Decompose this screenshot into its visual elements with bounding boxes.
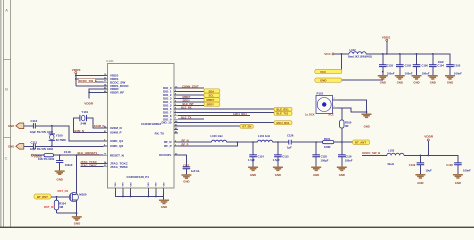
port BT_RST yellow — [34, 194, 51, 199]
svg-text:GND: GND — [339, 173, 345, 177]
resistor R100 vertical — [340, 108, 352, 142]
wire VDDS vertical — [75, 74, 77, 86]
svg-text:C109: C109 — [409, 163, 416, 167]
svg-text:BLE_INT: BLE_INT — [183, 102, 195, 106]
svg-text:0R: 0R — [345, 124, 348, 128]
port MRDY yellow — [204, 98, 220, 103]
wire mosfet drain vertical — [76, 155, 78, 194]
svg-text:GND: GND — [455, 181, 461, 185]
svg-text:12pF 5% 50V 0402: 12pF 5% 50V 0402 — [30, 130, 54, 134]
junction VDDR — [88, 91, 90, 93]
ground mosfet — [72, 217, 82, 225]
ground chip bottom — [159, 200, 169, 209]
inductor L103 — [387, 148, 404, 165]
ground P101 — [362, 114, 372, 128]
bottom edge dark strip — [0, 227, 474, 228]
junction C109 — [420, 155, 422, 157]
junction VDDR — [427, 155, 429, 157]
ground C102 — [395, 76, 405, 85]
inductor L102 — [348, 48, 372, 58]
resistor R103 — [38, 154, 55, 161]
svg-text:C111: C111 — [31, 141, 38, 145]
svg-text:BT_RST: BT_RST — [37, 195, 48, 199]
port BLE_RX1 yellow — [274, 107, 292, 111]
port BT_ANT yellow — [353, 140, 370, 145]
svg-text:GND: GND — [430, 80, 436, 84]
svg-text:LED1_BK4: LED1_BK4 — [233, 112, 247, 116]
junction crystal bottom — [51, 145, 53, 147]
svg-text:VDDR_RF: VDDR_RF — [110, 90, 124, 94]
ground C103 — [378, 76, 388, 85]
svg-text:24M: 24M — [81, 121, 87, 125]
svg-text:C118: C118 — [64, 150, 71, 154]
svg-text:VSS: VSS — [163, 182, 165, 187]
port GND upper — [8, 123, 24, 129]
svg-text:GND: GND — [56, 178, 62, 182]
junction mosfet drain tap — [76, 154, 78, 156]
ground C115 — [273, 167, 283, 177]
wire DIO_4 — [178, 98, 204, 102]
ground C118 — [55, 171, 65, 182]
svg-text:X24M_P: X24M_P — [110, 131, 122, 135]
svg-text:GND: GND — [417, 181, 423, 185]
capacitor C125 — [312, 142, 328, 167]
power port VDDS top — [382, 35, 391, 55]
wire DIO_8 — [178, 112, 250, 116]
svg-text:VCC: VCC — [320, 70, 327, 74]
svg-text:GND: GND — [183, 179, 189, 183]
svg-text:VSS: VSS — [130, 182, 132, 187]
capacitor C104 — [429, 53, 444, 75]
port BLE_TX1 yellow — [274, 112, 292, 116]
wire down to gnd — [76, 213, 78, 216]
wire DIO_3 — [178, 95, 204, 99]
svg-text:GND: GND — [447, 80, 453, 84]
svg-text:10K 5% 0402: 10K 5% 0402 — [38, 157, 55, 161]
svg-text:GND: GND — [250, 173, 256, 177]
svg-text:GND: GND — [413, 80, 419, 84]
wire reset net — [33, 154, 103, 156]
wire port2 to C111 — [24, 145, 33, 147]
svg-text:SRDY: SRDY — [207, 103, 215, 107]
power port VCC — [324, 52, 334, 56]
svg-text:GND: GND — [8, 145, 14, 149]
port GND yellow — [315, 78, 342, 83]
svg-text:GND: GND — [275, 173, 281, 177]
ground C114 — [248, 167, 258, 177]
svg-text:VSS: VSS — [148, 182, 150, 187]
wire port1 to C113 — [24, 125, 33, 127]
svg-text:U100: U100 — [106, 59, 114, 63]
wire VDDR_RF pin6 — [89, 91, 103, 93]
net label DCDC_SW_A — [78, 79, 97, 83]
svg-text:1.5pF: 1.5pF — [248, 158, 255, 162]
svg-text:1.5pF: 1.5pF — [273, 158, 280, 162]
junction VDDS pin2 — [75, 78, 77, 80]
wire DIO_7 — [178, 111, 274, 113]
svg-text:GND: GND — [320, 79, 326, 83]
svg-text:Y100: Y100 — [56, 134, 63, 138]
svg-text:100pF: 100pF — [321, 159, 329, 163]
ground C105 — [445, 76, 455, 85]
svg-text:100nF: 100nF — [387, 71, 395, 75]
wire DIO_6 — [178, 105, 274, 109]
wire C111 to X32K_Q2 pin — [35, 145, 103, 147]
wire GND box to gnd — [342, 79, 383, 81]
svg-text:MRDY: MRDY — [183, 95, 191, 99]
wire DIO_2 — [178, 94, 204, 96]
capacitor C100 — [413, 53, 430, 75]
svg-text:C103: C103 — [387, 63, 394, 67]
wire gate — [51, 196, 70, 198]
capacitor C113 — [30, 119, 54, 134]
wire X24M_N upper — [87, 118, 104, 128]
wire RF_P — [178, 142, 237, 146]
svg-text:VDDR: VDDR — [84, 102, 94, 106]
capacitor C109 — [409, 155, 432, 174]
svg-text:RX_TX: RX_TX — [155, 131, 164, 135]
junction C114 tap — [252, 141, 254, 143]
ground C108 — [453, 175, 463, 185]
port BT_EN yellow — [240, 125, 253, 129]
capacitor C117 DCOUPL — [178, 155, 200, 175]
svg-text:SCL: SCL — [209, 94, 215, 98]
power port VDDR right — [424, 135, 434, 156]
wire down to VCC box — [341, 54, 343, 70]
ground C109 — [415, 175, 425, 185]
svg-text:DCOUPL: DCOUPL — [159, 153, 171, 157]
wire VDDS pin2 — [76, 78, 104, 80]
svg-text:C126: C126 — [287, 133, 294, 137]
IC U100 right pin names — [155, 86, 172, 157]
svg-text:M100: M100 — [79, 192, 87, 196]
junction shield — [366, 111, 368, 113]
svg-text:A: A — [5, 8, 8, 13]
net label BLE_nRESET1 — [78, 151, 100, 155]
svg-text:GND: GND — [74, 221, 80, 225]
svg-text:RF_N: RF_N — [182, 138, 189, 142]
svg-text:10uH: 10uH — [387, 162, 394, 166]
IC U100 right pin numbers — [175, 87, 178, 156]
crystal Y100 — [49, 126, 66, 147]
svg-text:1uF HL: 1uF HL — [191, 169, 200, 173]
svg-text:RESET_N: RESET_N — [110, 153, 124, 157]
capacitor C103 — [379, 53, 395, 75]
svg-text:C116: C116 — [345, 155, 352, 159]
net label JTAG_TMSC — [80, 163, 103, 167]
svg-text:SDA: SDA — [209, 89, 215, 93]
wire DCDC out — [404, 155, 458, 162]
junction C125 tap — [315, 141, 317, 143]
wire VDDR pin5 — [89, 89, 103, 99]
svg-text:RST_R4: RST_R4 — [44, 205, 55, 209]
svg-text:C108: C108 — [446, 163, 453, 167]
wire DIO_1 — [178, 91, 204, 93]
svg-text:100R: 100R — [324, 145, 330, 149]
ground C100 — [412, 76, 422, 85]
inductor L100 — [211, 134, 238, 142]
svg-text:CC2640F128RGZ: CC2640F128RGZ — [141, 123, 162, 126]
IC U100 left pin names — [110, 74, 130, 169]
ground C116 — [337, 167, 347, 177]
wire VDDS_DCDC pin4 — [76, 85, 104, 87]
svg-text:DIO_10: DIO_10 — [162, 121, 172, 125]
svg-text:VCC: VCC — [324, 52, 331, 56]
svg-text:100nF: 100nF — [463, 169, 471, 173]
port VCC yellow — [315, 69, 342, 74]
sheet border frame left — [0, 0, 11, 228]
svg-text:RST_N1: RST_N1 — [58, 189, 69, 193]
capacitor C108 — [446, 163, 471, 174]
junction VDDS pin1 — [75, 75, 77, 77]
wire rail — [366, 54, 450, 65]
svg-text:JTAG_TMSC: JTAG_TMSC — [110, 165, 129, 169]
svg-text:B: B — [5, 86, 8, 91]
port SDA yellow — [204, 89, 220, 94]
resistor R104 — [54, 197, 66, 213]
port MCU_RX1 yellow — [274, 121, 292, 125]
svg-text:Y101: Y101 — [81, 110, 88, 114]
svg-text:L103: L103 — [388, 148, 395, 152]
svg-text:SRDY: SRDY — [183, 98, 191, 102]
wire bottom ground bus — [115, 191, 163, 200]
IC U100 left pin numbers — [104, 74, 107, 167]
svg-text:100nF: 100nF — [65, 163, 73, 167]
svg-text:MRDY: MRDY — [207, 98, 215, 102]
junction C115 tap — [277, 141, 279, 143]
svg-text:VSS: VSS — [115, 182, 117, 187]
svg-text:ACC: ACC — [328, 113, 334, 116]
wire DIO_0 CONN_STAT — [178, 85, 204, 89]
svg-text:RF_P: RF_P — [164, 144, 171, 148]
wire VCC to L102 — [334, 53, 349, 55]
svg-text:CC2640F128_P4: CC2640F128_P4 — [127, 175, 150, 179]
svg-text:R101: R101 — [324, 137, 331, 141]
wire shield to gnd — [337, 100, 367, 114]
wire DIO_5 — [178, 102, 204, 106]
svg-text:C114: C114 — [258, 155, 265, 159]
svg-text:100nF: 100nF — [422, 71, 430, 75]
junction RF merge — [236, 141, 238, 143]
svg-text:C115: C115 — [282, 155, 289, 159]
svg-text:100nF: 100nF — [405, 71, 413, 75]
svg-text:GND: GND — [397, 80, 403, 84]
svg-text:GND: GND — [313, 173, 319, 177]
inductor L101 — [257, 134, 288, 142]
svg-text:C125: C125 — [321, 155, 328, 159]
connector P101 — [305, 92, 337, 117]
junction crystal top — [51, 125, 53, 127]
svg-text:DCDC_SW_B: DCDC_SW_B — [362, 151, 380, 155]
svg-text:RF_P: RF_P — [182, 142, 189, 146]
capacitor C116 — [338, 142, 353, 167]
svg-text:C102: C102 — [405, 63, 412, 67]
svg-text:10uF: 10uF — [426, 169, 433, 173]
capacitor C105 — [446, 63, 462, 75]
svg-text:1M: 1M — [59, 205, 64, 209]
svg-text:1a_DCK: 1a_DCK — [305, 113, 315, 116]
svg-text:1pF: 1pF — [287, 146, 292, 150]
svg-text:BLE_RX: BLE_RX — [181, 105, 192, 109]
wire VDDS pin1 — [76, 75, 104, 77]
power port VDDS left — [72, 68, 81, 74]
svg-text:C113: C113 — [31, 119, 38, 123]
wire RF_N — [178, 138, 211, 142]
junction antenna tap — [341, 141, 343, 143]
ground C125 — [311, 167, 321, 177]
svg-text:C117: C117 — [183, 163, 190, 167]
junction source — [76, 212, 78, 214]
wire source to ground — [57, 212, 77, 214]
power port VDDS reset — [31, 154, 42, 158]
svg-text:X24M_N: X24M_N — [73, 129, 84, 133]
IC U100 left pin stubs — [104, 76, 108, 167]
IC U100 right pin stubs — [174, 88, 178, 155]
wire DCDC_SW pin3 — [96, 81, 104, 83]
svg-text:VDDR: VDDR — [424, 135, 434, 139]
svg-text:100nF: 100nF — [454, 71, 462, 75]
svg-text:C100: C100 — [422, 63, 429, 67]
svg-text:L100 1nH: L100 1nH — [211, 134, 223, 138]
wire DIO_10 — [178, 122, 274, 124]
svg-text:X32K_Q1: X32K_Q1 — [110, 139, 124, 143]
wire DIO_9 — [178, 116, 204, 120]
IC U100 body — [106, 59, 174, 188]
wire DIO_11 — [178, 125, 240, 127]
svg-text:C105: C105 — [454, 63, 461, 67]
svg-text:VSS: VSS — [123, 182, 125, 187]
ground C117 — [181, 175, 191, 183]
svg-text:L101 1nH: L101 1nH — [258, 134, 270, 138]
capacitor C114 — [248, 142, 264, 167]
svg-text:X24M_P: X24M_P — [94, 124, 105, 128]
svg-text:GND: GND — [161, 205, 167, 209]
junction C118 tap — [59, 154, 61, 156]
junction gate R104 — [56, 196, 58, 198]
svg-text:12pF 5% 50V 0402: 12pF 5% 50V 0402 — [30, 147, 54, 151]
svg-text:X24M_N: X24M_N — [110, 126, 122, 130]
capacitor C126 series — [287, 133, 316, 149]
svg-text:MCU_RX1: MCU_RX1 — [277, 121, 290, 125]
ground C104 — [428, 76, 438, 85]
capacitor C118 — [56, 155, 73, 170]
capacitor C115 — [273, 142, 289, 167]
svg-text:BT_ANT: BT_ANT — [355, 141, 366, 145]
capacitor C111 — [30, 141, 54, 151]
svg-text:Bead 1K2 1005(0402): Bead 1K2 1005(0402) — [348, 56, 372, 59]
port SCL yellow — [204, 93, 220, 97]
svg-text:X32K_Q2: X32K_Q2 — [110, 144, 124, 148]
svg-text:P101: P101 — [317, 92, 324, 96]
svg-text:GND: GND — [8, 124, 14, 128]
resistor R101 series — [316, 137, 352, 149]
capacitor C102 — [396, 53, 413, 75]
svg-text:GND: GND — [364, 125, 370, 129]
svg-text:R100: R100 — [345, 121, 352, 125]
svg-text:DCDC_SW_A: DCDC_SW_A — [79, 79, 97, 83]
svg-text:100nF: 100nF — [345, 159, 353, 163]
svg-text:BLE_TX1: BLE_TX1 — [277, 112, 289, 116]
IC U100 bottom pin names rotated — [115, 182, 165, 187]
svg-text:10nF: 10nF — [438, 60, 445, 64]
svg-text:BT_EN: BT_EN — [243, 125, 252, 129]
port GND lower — [8, 144, 24, 150]
port SRDY yellow — [204, 102, 220, 106]
wire RF main 1 — [237, 141, 257, 143]
svg-text:VSS: VSS — [156, 182, 158, 187]
svg-text:VDDS: VDDS — [382, 35, 391, 39]
crystal Y101 — [80, 110, 89, 125]
IC U100 bottom pin stubs — [115, 188, 163, 191]
transistor M100 — [69, 192, 87, 213]
net label JTAG_TCKC — [80, 160, 103, 164]
svg-text:BLE_TX: BLE_TX — [181, 116, 192, 120]
svg-text:32.768K: 32.768K — [56, 138, 66, 142]
svg-text:BLE_RX1: BLE_RX1 — [277, 107, 290, 111]
junction VCC boxes — [341, 53, 343, 55]
net label DCDC_SW_B — [362, 151, 387, 155]
svg-text:GND: GND — [380, 80, 386, 84]
wire X24M_P lower — [74, 118, 104, 132]
wire C113 to corner — [35, 126, 103, 141]
svg-text:C: C — [5, 156, 8, 161]
